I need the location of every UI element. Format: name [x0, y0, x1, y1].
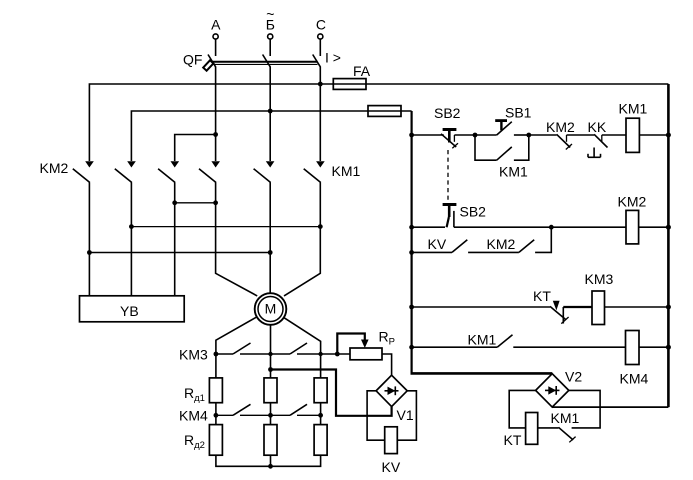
- resistor Rd2 label: [184, 432, 205, 451]
- node link B right: [318, 224, 323, 229]
- svg-text:FA: FA: [353, 63, 371, 79]
- node phase C / bus1: [318, 82, 323, 87]
- node col2 tap to V1: [268, 367, 273, 372]
- svg-text:QF: QF: [183, 52, 202, 68]
- contact KM1.3: [284, 161, 325, 296]
- svg-text:SB2: SB2: [434, 105, 461, 121]
- node bottom bus: [268, 464, 273, 469]
- wire phase C pole: [319, 67, 321, 162]
- wire rung1 to KM2 NC: [529, 134, 557, 136]
- node KM3 row col3: [318, 352, 322, 356]
- potentiometer RP wiper: [337, 334, 368, 355]
- wire rung4 coil to rail: [639, 346, 668, 348]
- KM4 rotor contacts label: [179, 408, 208, 424]
- svg-text:KM4: KM4: [179, 408, 208, 424]
- wire phase A pole: [215, 67, 217, 162]
- svg-text:M: M: [265, 301, 277, 317]
- contact KM2.2: [115, 161, 136, 296]
- pushbutton SB2 reverse (NO): [443, 204, 487, 228]
- node link B left: [129, 224, 134, 229]
- svg-text:KM2: KM2: [40, 160, 69, 176]
- resistor Rd1 col3: [314, 378, 327, 403]
- wire rung2 coil to rail: [639, 226, 669, 228]
- node KM3 row / RP tap: [335, 352, 340, 357]
- resistor Rd2 col3: [314, 425, 327, 456]
- contact KM2.1: [73, 161, 94, 296]
- node rail rung1 left: [409, 133, 414, 138]
- contactor coil KM1: [619, 101, 648, 153]
- rectifier V2: [536, 369, 583, 408]
- node link A right: [213, 200, 218, 205]
- wire link contacts 1-5: [89, 252, 270, 254]
- KM2 main contacts label: [40, 160, 69, 176]
- node KM3 col1: [214, 352, 219, 357]
- pushbutton SB2 stop (NC): [434, 105, 461, 148]
- node KM4 col2: [268, 413, 273, 418]
- svg-text:V2: V2: [565, 369, 582, 385]
- relay coil KT: [504, 413, 538, 449]
- contact KM1 (NC) in KT branch: [551, 410, 580, 442]
- contact KM3.b: [290, 343, 350, 354]
- wire bus1 (phase C to FA and contact 1): [89, 84, 668, 161]
- svg-text:V1: V1: [397, 407, 414, 423]
- node phase B / bus2: [268, 109, 273, 114]
- wire rung1 SB2-SB1: [454, 134, 475, 136]
- svg-text:KT: KT: [504, 432, 522, 448]
- node link C left: [87, 250, 92, 255]
- svg-text:KM3: KM3: [179, 347, 208, 363]
- svg-text:KK: KK: [588, 119, 607, 135]
- motor M: [255, 293, 287, 325]
- wire bus2 (phase B to control rail and contact 2): [131, 111, 411, 161]
- node rail rung2 left: [409, 225, 414, 230]
- wire link contacts 2-6: [131, 226, 320, 228]
- wire rung1 coil to rail: [639, 134, 668, 136]
- wire KT coil to KM1 NC: [538, 427, 559, 429]
- node KM4 col3: [318, 413, 323, 418]
- KM1 main contacts label: [332, 163, 361, 179]
- svg-text:KM3: KM3: [585, 271, 614, 287]
- wire rung4 to coil: [513, 346, 625, 348]
- contact KM3.a: [216, 343, 290, 354]
- wire bus3 (phase A to contact 3): [175, 135, 216, 162]
- svg-text:KT: KT: [533, 288, 551, 304]
- svg-text:KM2: KM2: [546, 119, 575, 135]
- node rail rung1 right: [666, 133, 671, 138]
- node link C right: [268, 250, 273, 255]
- contact KM4.a: [216, 404, 290, 415]
- node rail rung3 left: [409, 305, 414, 310]
- timed contact KT (NC delayed): [533, 288, 569, 324]
- contact KM2 interlock (NC): [546, 119, 575, 150]
- relay coil KV: [382, 427, 401, 475]
- thermal relay contact KK (NC): [588, 119, 608, 157]
- svg-text:KM2: KM2: [487, 236, 516, 252]
- wire control left rail: [411, 111, 553, 373]
- node rung1 self-hold right: [526, 133, 531, 138]
- wire rung2 to coil: [454, 226, 626, 228]
- circuit breaker QF: [183, 50, 341, 71]
- resistor Rd2 col2: [264, 425, 277, 456]
- wire rotor right: [284, 318, 321, 378]
- svg-text:A: A: [211, 17, 221, 33]
- contact KM1.2: [254, 161, 275, 293]
- svg-text:KM2: KM2: [618, 194, 647, 210]
- resistor Rd2 col1: [209, 425, 222, 456]
- svg-text:C: C: [316, 17, 326, 33]
- contact KM4.b: [290, 404, 321, 415]
- KM3 rotor contacts label: [179, 347, 208, 363]
- svg-text:KM1: KM1: [468, 332, 497, 348]
- wire rung2 start: [412, 226, 445, 228]
- contactor coil KM3: [585, 271, 614, 325]
- node rung2 branch: [549, 225, 554, 230]
- terminal B (~Б): [266, 6, 275, 56]
- wire rotor mid: [270, 325, 272, 378]
- contact KM1.1: [199, 161, 257, 296]
- wire rung1 KK to coil: [602, 134, 626, 136]
- resistor Rd1 col2: [264, 378, 277, 403]
- contact KM2 aux (NO): [468, 227, 551, 252]
- mechanical link SB2 (dashed): [447, 150, 449, 203]
- svg-text:~: ~: [266, 6, 274, 22]
- node phase A / bus3: [213, 132, 218, 137]
- brake magnet YB: [80, 296, 185, 322]
- node rail rung2 right: [666, 225, 671, 230]
- contact KM1 self-hold (NO): [475, 135, 529, 180]
- pushbutton SB1 start (NO): [475, 105, 532, 136]
- wire control right rail: [552, 84, 668, 407]
- node rail rung4 right: [666, 345, 671, 350]
- wire rung3 coil to rail: [605, 306, 669, 308]
- node rung1 self-hold left: [473, 133, 478, 138]
- wire rotor bottom bus: [216, 455, 321, 466]
- svg-text:KV: KV: [428, 236, 447, 252]
- svg-text:KM4: KM4: [620, 371, 649, 387]
- contact KM2.3: [158, 161, 179, 296]
- svg-text:KV: KV: [382, 459, 401, 475]
- wire link contacts 3-4: [175, 202, 216, 204]
- wire RP to V1 top: [382, 354, 392, 375]
- wire V2 left vertex to KT coil: [509, 390, 535, 428]
- svg-text:KM1: KM1: [619, 101, 648, 117]
- wire rung1 SB1 out: [514, 134, 529, 136]
- resistor Rd1 label: [184, 385, 205, 404]
- svg-text:SB1: SB1: [505, 105, 532, 121]
- node rail rung4 left: [409, 345, 414, 350]
- contactor coil KM2: [618, 194, 647, 244]
- node link A left: [172, 200, 177, 205]
- wire V1 right vertex to KV: [397, 391, 416, 440]
- resistor Rd1 col1: [209, 378, 222, 403]
- node KM4 col1: [214, 413, 219, 418]
- wire rung1 KM2-KK: [567, 134, 595, 136]
- contact KM1 aux rung4 (NO): [412, 332, 513, 348]
- wire rung3 start: [412, 306, 550, 308]
- wire col1 Rd1-KM4: [215, 403, 217, 425]
- contact KV (NO): [412, 236, 468, 252]
- wire col2 tap to V1 bottom: [271, 370, 392, 416]
- terminal C: [316, 17, 326, 57]
- node rail KV branch: [409, 250, 414, 255]
- svg-text:KM1: KM1: [551, 410, 580, 426]
- svg-text:YB: YB: [120, 303, 139, 319]
- wire rung1 start: [412, 134, 444, 136]
- wire col2 Rd1-KM4: [270, 403, 272, 425]
- wire col3 Rd1-KM4: [320, 403, 322, 425]
- node rail rung3 right: [666, 305, 671, 310]
- svg-text:KM1: KM1: [499, 164, 528, 180]
- wire rung3 KT to coil: [563, 306, 592, 308]
- svg-text:I >: I >: [325, 50, 341, 66]
- wire phase B pole: [269, 67, 271, 162]
- potentiometer RP: [350, 329, 395, 360]
- wire KM1 NC to V2 right vertex: [569, 390, 600, 428]
- wire V1 left vertex to KV: [367, 391, 385, 440]
- fuse FA2: [368, 106, 401, 117]
- svg-text:KM1: KM1: [332, 163, 361, 179]
- node KM3 row col2: [268, 352, 272, 356]
- wire rotor left: [216, 317, 257, 378]
- contactor coil KM4: [620, 331, 649, 387]
- terminal A: [211, 17, 221, 57]
- svg-text:SB2: SB2: [460, 204, 487, 220]
- rectifier V1: [376, 375, 414, 423]
- fuse FA1: [333, 63, 370, 89]
